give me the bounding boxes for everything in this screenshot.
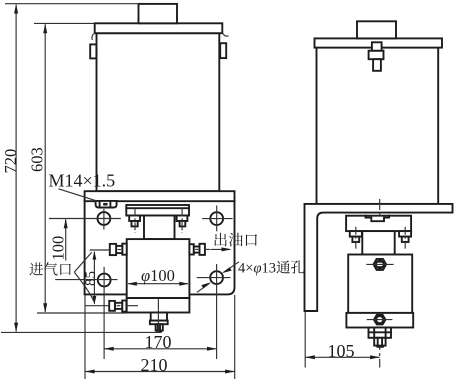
crosshair top-right hole — [202, 218, 233, 220]
hex screw on block — [374, 259, 387, 270]
φ13 leader upper — [222, 262, 239, 274]
base nut centerline — [367, 319, 393, 321]
pump block front — [127, 239, 190, 312]
bar notch — [366, 216, 390, 222]
hole bottom-left — [98, 274, 111, 287]
block base divider — [127, 297, 190, 299]
tank lid front — [95, 23, 223, 33]
hex nut on base — [374, 315, 386, 325]
main centerline — [379, 199, 381, 368]
inlet label leader fork — [74, 252, 94, 301]
bottom discharge fitting front — [150, 313, 168, 333]
lower inlet centerline — [85, 305, 109, 307]
φ13 leader lower — [197, 282, 211, 292]
M14 leader line — [59, 189, 97, 201]
svg-text:720: 720 — [1, 149, 20, 174]
dimension 603 — [27, 23, 126, 313]
right clip — [220, 43, 226, 58]
outlet arrow — [211, 247, 232, 251]
bottom fitting centerline — [157, 313, 159, 333]
tank body side — [317, 48, 439, 204]
right stud bolt front — [177, 216, 188, 222]
pump block side — [348, 255, 412, 313]
crosshair top-left hole — [49, 218, 121, 220]
svg-text:φ100: φ100 — [141, 266, 175, 285]
dimension 105 — [305, 312, 380, 368]
pump flange bar side — [346, 216, 411, 231]
left stud bolt front — [129, 216, 140, 222]
mounting plate front — [85, 191, 235, 294]
right stud bolt side — [399, 231, 411, 237]
tank body front — [97, 33, 220, 191]
crosshair bottom-right hole + 170 extension — [197, 277, 231, 279]
dimension φ100 — [127, 266, 189, 286]
air inlet fitting upper — [110, 244, 127, 255]
plate bend line — [85, 200, 235, 202]
lid fitting side — [369, 42, 384, 71]
left clip — [90, 44, 96, 58]
right bolt centerline side — [404, 227, 406, 249]
air inlet fitting lower — [109, 301, 126, 312]
right clip hook — [222, 33, 228, 37]
hole bottom-right — [210, 271, 223, 284]
pump neck side — [362, 231, 394, 254]
crosshair bottom-left hole + 170 extension — [55, 279, 117, 281]
svg-text:4×φ13: 4×φ13 — [238, 261, 276, 277]
block base centerline — [157, 299, 159, 313]
label 出油口 — [214, 233, 226, 247]
pump flange bar front — [126, 205, 189, 216]
hole top-left — [98, 212, 111, 225]
svg-text:100: 100 — [48, 236, 67, 261]
hex screw centerline — [366, 263, 393, 265]
pump neck front — [144, 216, 175, 240]
oil outlet fitting — [189, 244, 205, 255]
dimension 170 — [104, 332, 217, 352]
svg-text:603: 603 — [27, 147, 46, 172]
left clip hook — [92, 34, 94, 40]
svg-text:210: 210 — [141, 355, 168, 375]
svg-text:85: 85 — [83, 271, 99, 286]
tank flange side — [315, 38, 443, 47]
dimension 210 — [85, 295, 235, 379]
block base side — [346, 313, 413, 328]
label 进气口 — [29, 262, 43, 275]
svg-text:170: 170 — [145, 332, 172, 352]
hole top-right — [210, 212, 223, 225]
left bolt centerline — [134, 208, 136, 233]
dimension 720 — [1, 4, 161, 333]
left stud bolt side — [350, 231, 362, 237]
left bolt centerline side — [355, 227, 357, 249]
discharge fitting side — [369, 328, 392, 348]
dimension 85 — [83, 251, 99, 305]
outlet centerline — [205, 248, 210, 250]
upper inlet centerline — [90, 249, 110, 251]
L-bracket side — [305, 204, 453, 311]
filler cap side — [357, 21, 396, 38]
filler cap front — [139, 4, 178, 23]
dimension 100 — [48, 219, 67, 261]
M14 threaded boss — [96, 201, 117, 208]
svg-text:105: 105 — [328, 341, 355, 361]
right bolt centerline — [181, 208, 183, 233]
svg-text:M14×1.5: M14×1.5 — [49, 171, 116, 191]
